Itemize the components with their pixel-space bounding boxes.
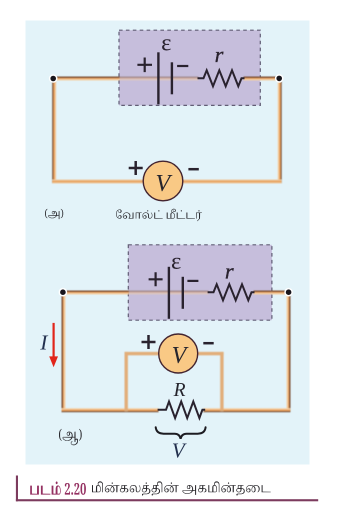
caption left bar (16, 476, 18, 502)
svg-text:I: I (39, 331, 48, 355)
node junction right circuit 2 (284, 288, 293, 297)
wire: voltmeter2 tap left horizontal (125, 352, 160, 355)
battery box (dashed) circuit 2 (128, 245, 272, 320)
resistor r (internal) circuit 1 (198, 70, 245, 86)
node junction right circuit 1 (275, 74, 284, 83)
battery box (dashed) circuit 1 (119, 30, 260, 105)
node junction left circuit 1 (49, 74, 58, 83)
label volt meter Tamil (116, 209, 202, 222)
battery cell plates (emf) circuit 2 (168, 267, 170, 319)
plus sign at battery 2 (149, 272, 163, 286)
svg-text:ε: ε (161, 30, 171, 57)
svg-text:R: R (173, 380, 186, 401)
svg-text:V: V (155, 171, 172, 197)
minus sign at voltmeter 1 (188, 168, 198, 171)
svg-text:V: V (172, 343, 189, 369)
resistor R (external load) (158, 402, 206, 419)
caption underline rule (16, 499, 318, 501)
plus sign at voltmeter 2 (142, 335, 156, 349)
wire: circuit2 inside battery box (left of resistor) (129, 291, 209, 295)
minus sign at voltmeter 2 (203, 342, 213, 345)
wire: circuit2 bottom right of load R (203, 408, 290, 412)
wire: circuit1 left vertical (52, 77, 56, 184)
current arrow I (red) (52, 323, 54, 358)
label (aa) Tamil (59, 429, 82, 445)
wire: circuit2 inside battery box (right of resistor) (254, 291, 272, 295)
wire: circuit1 top left segment (52, 77, 119, 81)
wire: circuit2 top left segment (62, 291, 129, 295)
wire: voltmeter2 tap right vertical (220, 352, 223, 411)
brace under resistor R (156, 427, 206, 439)
node junction left circuit 2 (59, 288, 68, 297)
wire: circuit1 top right segment (260, 77, 282, 81)
voltmeter V circuit 2 (159, 334, 198, 373)
wire: circuit1 right vertical (278, 77, 282, 184)
wire: circuit2 left vertical (62, 291, 66, 413)
wire: voltmeter2 tap left vertical (125, 352, 128, 411)
wire: circuit2 right vertical (287, 291, 291, 413)
voltmeter V circuit 1 (143, 161, 183, 201)
resistor r (internal) circuit 2 (208, 284, 255, 300)
blue figure panel (26, 21, 310, 465)
svg-text:V: V (172, 439, 187, 463)
svg-text:ε: ε (171, 248, 181, 275)
wire: circuit1 inside battery box (left of resistor) (120, 77, 199, 81)
minus sign at battery 1 (177, 65, 188, 67)
svg-text:r: r (225, 259, 234, 284)
wire: circuit1 inside battery box (right of resistor) (244, 77, 260, 81)
minus sign at battery 2 (187, 280, 198, 282)
caption text internal resistance of cell (Tamil) (92, 481, 271, 495)
label (a) Tamil (45, 209, 63, 219)
wire: voltmeter2 tap right horizontal (197, 352, 224, 355)
caption text Figure 2.20 (Tamil, bold) (30, 482, 86, 495)
plus sign at battery 1 (137, 58, 152, 73)
svg-text:r: r (215, 42, 224, 67)
wire: circuit2 top right segment (271, 291, 290, 295)
wire: circuit1 bottom (52, 180, 281, 184)
battery cell plates (emf) circuit 1 (157, 52, 159, 104)
plus sign at voltmeter 1 (129, 161, 143, 175)
wire: circuit2 bottom left of load R (62, 408, 159, 412)
